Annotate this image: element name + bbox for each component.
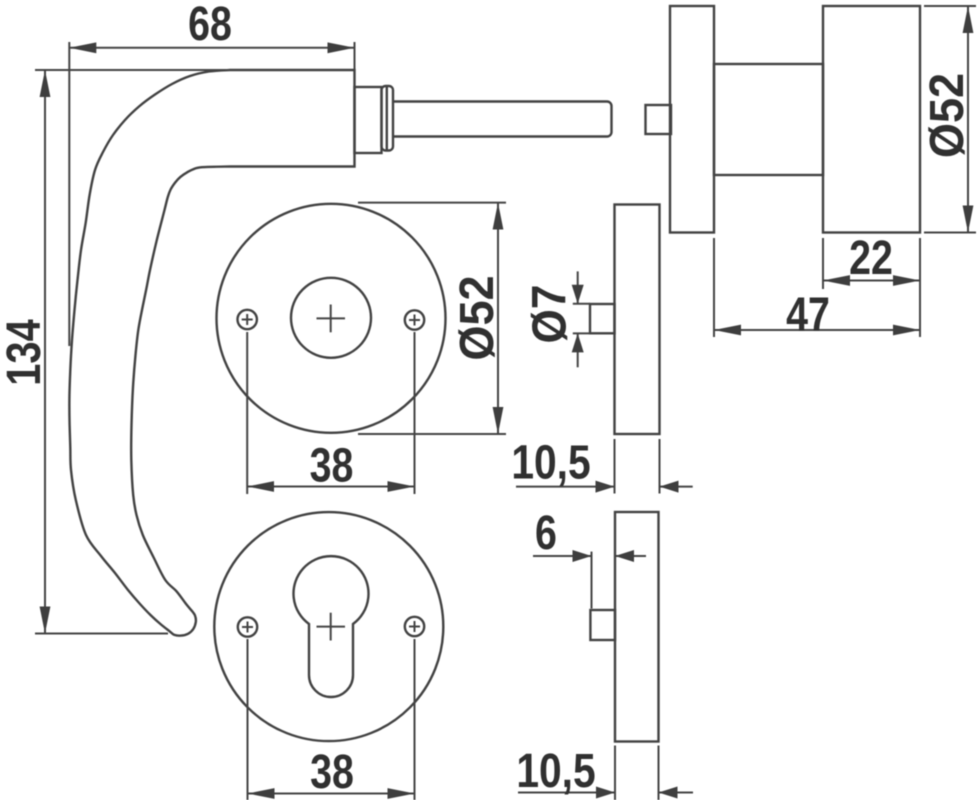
dimension 47	[714, 238, 920, 342]
lever handle outline	[69, 70, 354, 636]
svg-text:10,5: 10,5	[516, 745, 595, 798]
svg-text:38: 38	[310, 439, 354, 493]
dimension 6	[533, 506, 646, 608]
svg-text:22: 22	[849, 231, 893, 285]
handle rosette guide boss	[590, 304, 615, 333]
dimension 134	[0, 70, 230, 634]
svg-text:Ø7: Ø7	[522, 285, 576, 344]
spindle	[393, 102, 612, 137]
dimension D52 knob	[920, 6, 976, 233]
dimension 10,5 bottom	[516, 745, 693, 800]
svg-text:38: 38	[310, 745, 354, 799]
dimension 38 bottom	[248, 639, 415, 800]
knob head	[823, 6, 920, 233]
svg-text:134: 134	[0, 319, 51, 386]
screw right (handle rosette)	[405, 310, 424, 329]
handle neck ring	[382, 86, 394, 151]
cylinder rosette (front view)	[214, 512, 443, 741]
svg-text:68: 68	[188, 0, 232, 51]
dimension 10,5 top	[511, 436, 692, 493]
euro profile keyhole	[294, 556, 369, 697]
knob rosette plate (side view)	[670, 6, 714, 233]
cylinder rosette boss	[590, 610, 615, 640]
svg-text:6: 6	[535, 506, 557, 560]
handle rosette (front view)	[217, 204, 446, 433]
cylinder rosette (side view)	[615, 512, 659, 742]
handle rosette (side view)	[615, 205, 660, 435]
knob neck	[714, 64, 823, 175]
dimension D52 rosette	[358, 203, 506, 434]
dimension D7	[522, 271, 590, 367]
svg-text:47: 47	[786, 288, 830, 342]
center cross handle rosette	[317, 305, 346, 333]
handle neck collar	[355, 87, 382, 153]
dimension 22	[823, 231, 920, 337]
svg-text:Ø52: Ø52	[450, 275, 504, 360]
svg-text:10,5: 10,5	[511, 436, 590, 489]
dimension 68	[69, 0, 354, 346]
center cross cylinder rosette	[317, 613, 346, 641]
screw left (handle rosette)	[238, 310, 257, 329]
handle rosette hub hole	[291, 278, 371, 358]
dimension 38 top	[247, 332, 414, 494]
spindle stub at knob	[646, 105, 672, 134]
svg-text:Ø52: Ø52	[920, 73, 974, 158]
screw left (cylinder rosette)	[238, 617, 257, 636]
screw right (cylinder rosette)	[405, 617, 424, 636]
